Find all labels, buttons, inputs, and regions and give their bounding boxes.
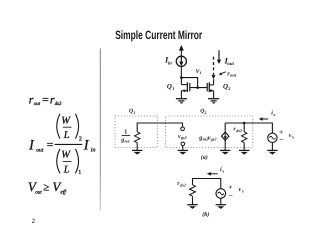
svg-text:m1: m1	[125, 139, 130, 144]
svg-text:−: −	[279, 135, 283, 144]
label V1	[196, 69, 202, 75]
svg-text:1: 1	[199, 70, 201, 75]
main fraction bar	[55, 143, 83, 145]
svg-text:W: W	[61, 115, 71, 126]
transistor Q1	[181, 78, 189, 99]
equation Iout = (W/L)2 / (W/L)1 Iin	[28, 114, 95, 176]
ground Q2	[208, 99, 219, 103]
node V1 dot	[180, 76, 183, 79]
svg-text:1: 1	[124, 129, 127, 135]
label vx (b)	[239, 187, 245, 193]
svg-text:g: g	[120, 137, 124, 143]
svg-text:ds2: ds2	[236, 128, 242, 133]
ground (vx a)	[267, 150, 277, 154]
svg-text:out: out	[227, 62, 234, 67]
dependent source gm2vgs2 (diamond)	[222, 123, 229, 150]
label ix (a)	[271, 110, 276, 117]
dashed Iout wire with arrow	[212, 57, 216, 80]
label Iin	[164, 55, 172, 67]
svg-text:=: =	[47, 137, 54, 151]
diode connection wire	[181, 78, 197, 88]
terminal vgs2 bottom	[181, 142, 185, 146]
arrow Iout	[217, 50, 221, 64]
svg-text:W: W	[61, 150, 71, 161]
label ix (b)	[220, 166, 225, 173]
svg-text:gs2: gs2	[180, 135, 187, 140]
arrow ix (b)	[207, 172, 218, 176]
svg-text:x: x	[272, 112, 276, 117]
output rail (a)	[225, 123, 272, 133]
svg-text:x: x	[241, 188, 245, 193]
label rds2 (a)	[233, 127, 242, 133]
svg-text:L: L	[63, 130, 70, 141]
numerator (W/L)2	[57, 114, 60, 139]
label Q2	[223, 83, 231, 92]
svg-text:L: L	[63, 165, 70, 176]
svg-text:−: −	[229, 191, 233, 200]
equation Vout >= Veff	[28, 179, 67, 196]
label vx (a)	[289, 133, 295, 139]
svg-text:x: x	[221, 168, 225, 173]
svg-text:1: 1	[172, 86, 175, 91]
ground (vx b)	[216, 205, 226, 209]
svg-text:≥: ≥	[43, 181, 49, 193]
svg-text:x: x	[291, 134, 295, 139]
svg-text:1: 1	[78, 170, 81, 176]
top rail (b)	[193, 179, 221, 189]
label vgs2	[178, 134, 187, 140]
wire bottom terminal to ground	[182, 146, 184, 151]
label rout	[227, 70, 237, 77]
ground (rds2 a)	[239, 150, 249, 154]
svg-text:gs2: gs2	[210, 137, 217, 142]
svg-text:2: 2	[228, 86, 231, 91]
supply arrow	[179, 45, 184, 56]
svg-text:Simple Current Mirror: Simple Current Mirror	[115, 28, 202, 42]
dashed box Q2	[166, 116, 253, 147]
divider line	[100, 48, 101, 210]
dashed box Q1	[115, 116, 158, 147]
svg-text:out: out	[35, 190, 42, 195]
label Iout	[224, 55, 235, 67]
svg-text:in: in	[91, 148, 96, 154]
wire source to node V1	[180, 66, 182, 77]
label Q2 (box)	[200, 109, 206, 115]
plus minus (a)	[279, 128, 283, 144]
ground (vgs2)	[178, 150, 188, 154]
rout arrow	[219, 72, 226, 75]
svg-text:(b): (b)	[202, 211, 209, 218]
resistor 1/gm1	[135, 132, 140, 151]
label 1/gm1	[120, 129, 130, 143]
label gm2 vgs2	[198, 134, 216, 141]
ground (rds2 b)	[187, 205, 197, 209]
denominator (W/L)1	[57, 149, 60, 174]
ground (diamond)	[220, 150, 230, 154]
svg-text:eff: eff	[60, 190, 67, 196]
svg-text:1: 1	[133, 110, 135, 115]
voltage source vx (b)	[216, 189, 226, 205]
plus minus (b)	[228, 183, 232, 201]
gate wire	[190, 87, 207, 89]
svg-text:2: 2	[79, 136, 82, 142]
arrow ix (a)	[259, 117, 269, 121]
terminal vgs2 top	[181, 127, 185, 131]
resistor rds2 (a)	[242, 123, 247, 150]
svg-text:out: out	[34, 102, 41, 107]
svg-text:ds2: ds2	[55, 101, 62, 107]
svg-text:in: in	[168, 60, 172, 66]
svg-text:2: 2	[205, 110, 207, 115]
label Q1	[167, 83, 175, 92]
current source Iin	[176, 56, 186, 66]
svg-text:ds2: ds2	[180, 182, 186, 187]
voltage source vx (a)	[268, 133, 277, 150]
svg-text:out: out	[230, 73, 237, 78]
resistor rds2 (b)	[190, 185, 196, 205]
ground Q1	[176, 99, 187, 103]
svg-text:(a): (a)	[201, 154, 208, 161]
svg-text:out: out	[36, 148, 44, 154]
svg-text:2: 2	[32, 218, 36, 225]
svg-text:=: =	[42, 93, 49, 107]
gate junction dot	[196, 86, 199, 89]
label Q1 (box)	[129, 109, 135, 115]
transistor Q2	[207, 79, 213, 98]
svg-text:I: I	[28, 138, 35, 154]
label rds2 (b)	[177, 181, 186, 187]
equation rout = rds2	[29, 92, 62, 107]
junction dot rds2	[243, 122, 246, 125]
svg-text:I: I	[83, 138, 90, 154]
ground (1/gm1)	[132, 150, 142, 154]
wire resistor top to vgs2 terminal	[137, 123, 182, 132]
